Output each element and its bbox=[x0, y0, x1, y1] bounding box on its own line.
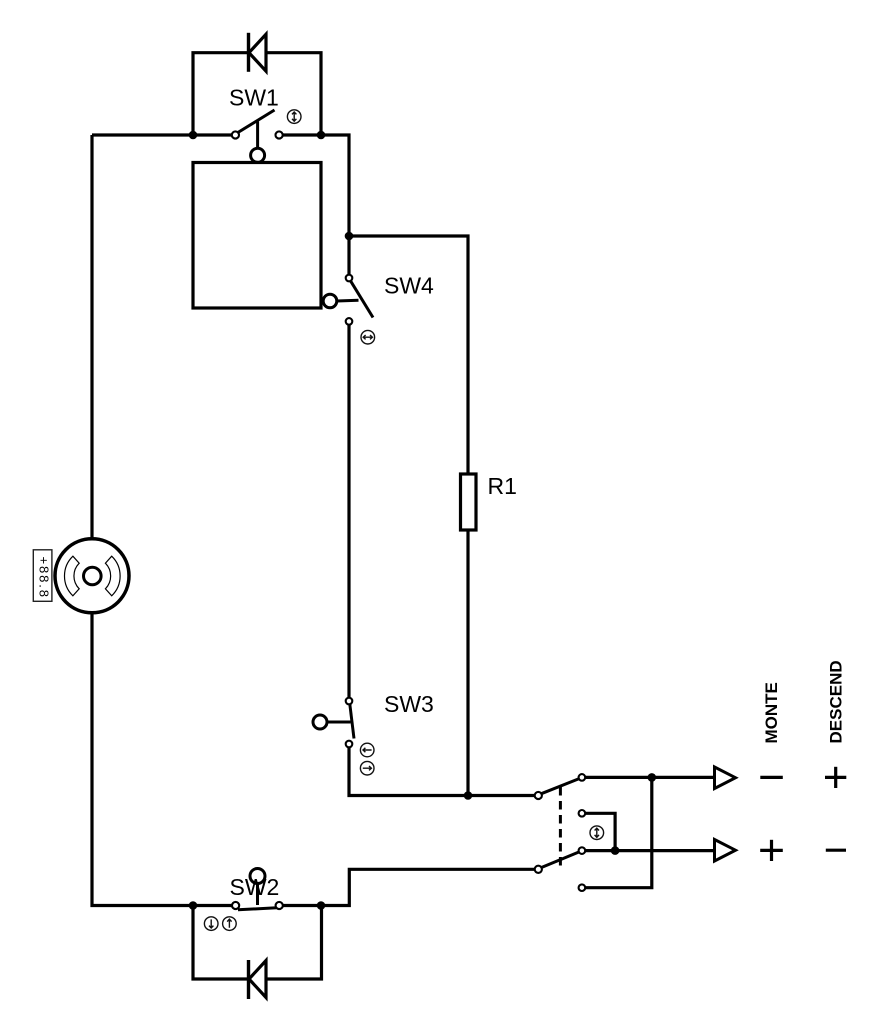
svg-text:DESCEND: DESCEND bbox=[827, 660, 846, 743]
svg-text:+88.8: +88.8 bbox=[37, 557, 52, 599]
svg-text:MONTE: MONTE bbox=[762, 682, 781, 743]
svg-text:SW2: SW2 bbox=[230, 874, 280, 900]
svg-text:SW3: SW3 bbox=[384, 691, 434, 717]
svg-text:SW4: SW4 bbox=[384, 273, 434, 299]
svg-text:SW1: SW1 bbox=[229, 85, 279, 111]
svg-text:R1: R1 bbox=[488, 473, 517, 499]
